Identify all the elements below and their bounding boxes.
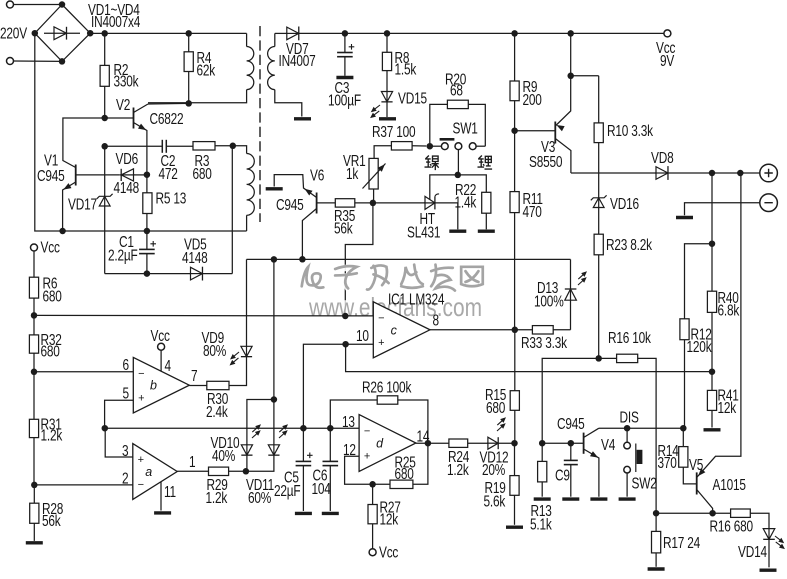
resistor R41 12k [707,372,739,428]
diode VD5 4148 [105,235,233,281]
svg-text:104: 104 [312,479,332,497]
diode VD6 4148 [113,149,146,196]
wire: divider tap to opamp c inverting input [34,313,373,320]
svg-text:C6822: C6822 [149,109,183,127]
svg-text:R16 10k: R16 10k [608,328,651,346]
svg-text:680: 680 [486,398,506,416]
ground (R13) [534,497,551,500]
svg-text:680: 680 [193,164,213,182]
ground (V4) [590,497,607,500]
svg-text:6.8k: 6.8k [718,301,740,319]
svg-text:R10 3.3k: R10 3.3k [607,121,653,139]
svg-text:2.2µF: 2.2µF [108,246,138,264]
transistor V5 A1015 [689,173,746,513]
svg-text:1.2k: 1.2k [447,460,469,478]
svg-text:220V: 220V [0,24,28,42]
svg-text:+: + [364,450,370,462]
LED VD12 20% [479,415,514,478]
resistor R12 120k [680,240,715,428]
diode VD7 IN4007 [275,27,345,70]
terminal + output [760,164,778,182]
wire: opamp c output [430,329,515,331]
ground (C3) [336,76,353,79]
resistor R30 2.4k [189,357,246,420]
switch SW2 [624,428,657,497]
svg-text:1.2k: 1.2k [41,426,63,444]
diode VD8 [571,148,760,180]
svg-text:SW2: SW2 [631,474,656,492]
bridge rectifier VD1-VD4 [0,0,141,64]
switch SW1 [430,119,486,175]
svg-text:56k: 56k [42,511,61,529]
wire: opamp c + to R40/R41 node [346,344,716,375]
resistor R37 100 [372,122,433,158]
resistor R32 680 [29,312,61,372]
svg-text:1.2k: 1.2k [205,488,227,506]
svg-text:100%: 100% [534,292,564,310]
reference HT SL431 [373,172,461,241]
ground (VD14) [760,569,777,572]
LED VD14 [738,528,787,567]
svg-text:120k: 120k [687,337,712,355]
svg-text:60%: 60% [248,488,271,506]
svg-text:IN4007: IN4007 [279,51,316,69]
svg-text:R37 100: R37 100 [372,122,416,140]
ground (V6 emitter) [266,187,283,190]
LED VD9 80% [201,259,252,367]
svg-text:V2: V2 [116,95,130,113]
svg-text:4148: 4148 [113,178,139,196]
svg-text:1.5k: 1.5k [395,60,417,78]
resistor R15 680 [485,330,519,443]
svg-text:−: − [378,312,384,324]
svg-text:56k: 56k [334,219,353,237]
svg-text:1k: 1k [346,164,358,182]
opamp IC1d [342,412,430,471]
resistor R2 [100,33,139,118]
svg-text:R26 100k: R26 100k [362,378,411,396]
label nickel [425,156,439,171]
svg-text:22µF: 22µF [274,481,300,499]
resistor R28 56k [30,482,64,541]
svg-text:2: 2 [122,469,128,487]
ground (C5) [295,512,312,515]
svg-text:11: 11 [164,482,176,500]
resistor R9 200 [510,33,542,130]
wire: Vcc top rail [342,30,664,37]
svg-text:C9: C9 [555,466,570,484]
svg-text:62k: 62k [196,61,215,79]
ground (R22) [478,229,495,232]
resistor R25 680 [373,443,428,488]
ground (R19) [506,526,523,529]
resistor R11 470 [510,127,543,329]
svg-text:IN4007x4: IN4007x4 [91,12,141,30]
opamp IC1a [34,425,196,500]
LED VD11 60% [243,259,293,506]
ground (C6) [322,512,339,515]
resistor R24 1.2k [447,439,488,478]
svg-text:a: a [145,465,152,479]
resistor R8 1.5k [382,33,416,91]
wire: 220V return rail [35,33,247,234]
svg-text:7: 7 [191,366,197,384]
svg-text:R17 24: R17 24 [663,533,701,551]
svg-text:Vcc: Vcc [379,543,398,561]
svg-text:12k: 12k [718,398,737,416]
svg-text:12k: 12k [379,510,398,528]
resistor R31 1.2k [29,369,62,485]
transistor V6 C945 [274,166,324,259]
ground (secondary) [294,117,311,120]
wire: R16 corner to V4 node [542,358,599,443]
resistor R40 6.8k [707,173,739,372]
svg-text:C945: C945 [276,195,304,213]
svg-text:R16 680: R16 680 [709,517,753,535]
wire: LED common rail [247,256,571,263]
svg-text:680: 680 [395,464,415,482]
svg-text:SL431: SL431 [407,223,441,241]
svg-text:C945: C945 [557,414,585,432]
svg-text:−: − [138,479,144,491]
svg-text:472: 472 [158,164,177,182]
wire: VR1 node to opamp c inverting input [345,203,373,316]
svg-text:470: 470 [523,202,543,220]
wire: DIS line [599,408,687,432]
wire: mains top rail to transformer [90,30,246,37]
label lithium [478,156,493,170]
svg-text:6: 6 [122,355,129,373]
svg-text:IC1 LM324: IC1 LM324 [388,290,445,308]
svg-text:+: + [138,454,144,466]
capacitor C2 472 [101,140,193,183]
svg-text:20%: 20% [482,460,505,478]
resistor R35 56k [317,199,373,237]
left bias chain: terminal Vcc [31,238,60,277]
svg-text:370: 370 [657,453,677,471]
transformer core (dashed) [259,26,261,222]
svg-text:5: 5 [122,384,129,402]
resistor R6 680 [29,274,62,316]
svg-text:b: b [150,379,157,393]
LED D13 [534,259,591,329]
svg-text:S8550: S8550 [529,152,563,170]
resistor R20 68 [430,70,486,146]
svg-text:10: 10 [356,326,369,344]
svg-text:5.6k: 5.6k [483,492,505,510]
ground (R17) [648,567,665,570]
wire: opamp d + input loop [345,456,373,484]
ground (VD15) [379,117,396,120]
wire: V5 collector net [653,510,731,517]
svg-text:1.4k: 1.4k [455,193,477,211]
ground (SW2) [619,497,636,500]
resistor R33 3.3k [512,326,571,352]
svg-text:SW1: SW1 [452,119,478,137]
svg-text:V4: V4 [601,435,616,453]
wire: opamp d output [416,440,449,447]
resistor R27 12k [368,481,401,549]
terminal Vcc (IC1b) [151,326,170,371]
svg-text:−: − [138,368,144,380]
svg-text:680: 680 [41,342,61,360]
transformer feedback winding [233,146,255,231]
svg-text:100µF: 100µF [328,91,361,109]
svg-text:A1015: A1015 [713,475,747,493]
svg-text:c: c [391,323,398,337]
terminal Vcc 9V [656,30,675,69]
zener VD16 [591,194,640,234]
svg-text:2.4k: 2.4k [206,402,228,420]
ground (R41) [704,428,721,431]
svg-text:R5 13: R5 13 [156,189,187,207]
resistor R16 10k [595,328,656,513]
svg-text:4: 4 [165,356,172,374]
svg-text:VD15: VD15 [398,89,427,107]
capacitor C5 22uF [274,425,313,511]
ground (R28) [26,541,43,544]
svg-text:Vcc: Vcc [151,326,170,344]
capacitor C3 100uF [328,33,361,108]
watermark [302,265,484,322]
svg-text:200: 200 [523,90,543,108]
svg-text:Vcc: Vcc [41,238,60,256]
svg-text:680: 680 [42,287,62,305]
svg-text:5.1k: 5.1k [530,515,552,533]
transistor V4 C945 [557,414,616,496]
opamp IC1c LM324 [356,290,445,358]
svg-text:330k: 330k [113,72,138,90]
terminal Vcc (R27) [369,543,398,561]
svg-text:VD8: VD8 [651,148,674,166]
resistor R4 [184,33,215,103]
capacitor C6 104 [312,425,339,511]
svg-text:3: 3 [122,441,129,459]
svg-text:R23 8.2k: R23 8.2k [606,235,652,253]
svg-text:+: + [138,392,144,404]
LED VD10 40% [210,396,277,471]
resistor R26 100k [330,378,428,443]
svg-text:8: 8 [433,311,440,329]
ground (minus terminal) [676,216,693,219]
resistor R13 5.1k [530,440,552,533]
svg-text:C945: C945 [37,166,65,184]
resistor R17 24 [652,513,701,567]
svg-text:V5: V5 [689,455,704,473]
svg-text:13: 13 [342,412,355,430]
wire: opamp c + input [303,341,373,428]
svg-text:−: − [364,426,370,438]
svg-text:+: + [378,337,384,349]
LED VD15 [366,89,427,120]
resistor R14 370 [657,428,696,484]
svg-text:d: d [376,437,384,451]
svg-text:VD6: VD6 [115,149,138,167]
resistor R16b 680 [709,509,769,535]
zener VD17 [68,146,113,273]
transistor V3 S8550 [515,33,574,173]
resistor R23 8.2k [594,234,652,358]
resistor R29 1.2k [177,467,246,506]
svg-text:4148: 4148 [182,248,208,266]
wire: opamp common input rail [105,427,359,429]
capacitor C1 2.2uF [108,228,156,277]
opamp IC1b [34,355,197,428]
resistor R5 13 [143,171,187,231]
wire: VD5 to R3 node [231,146,233,274]
resistor R22 1.4k [455,175,491,229]
svg-text:VD16: VD16 [610,194,639,212]
transformer primary winding [148,33,254,102]
svg-text:DIS: DIS [619,408,638,426]
ground (HT) [449,229,466,232]
svg-text:1: 1 [189,452,196,470]
svg-text:68: 68 [450,81,463,99]
ground (C9) [562,497,579,500]
resistor R10 3.3k [571,76,653,198]
transistor V1 C945 [37,118,120,231]
svg-text:VD17: VD17 [68,195,97,213]
transistor V2 C6822 [101,95,192,174]
potentiometer VR1 1k [343,151,387,206]
capacitor C9 [542,440,583,497]
svg-text:VD14: VD14 [738,542,767,560]
svg-text:40%: 40% [212,446,235,464]
transformer secondary winding [268,33,302,116]
svg-text:80%: 80% [203,341,226,359]
ground (IC1a pin11) [154,482,171,513]
svg-text:V6: V6 [310,166,325,184]
terminal - output [685,194,778,215]
resistor R3 680 [193,142,237,183]
svg-text:R33 3.3k: R33 3.3k [521,333,567,351]
resistor R19 5.6k [483,440,519,525]
svg-text:9V: 9V [660,51,675,69]
